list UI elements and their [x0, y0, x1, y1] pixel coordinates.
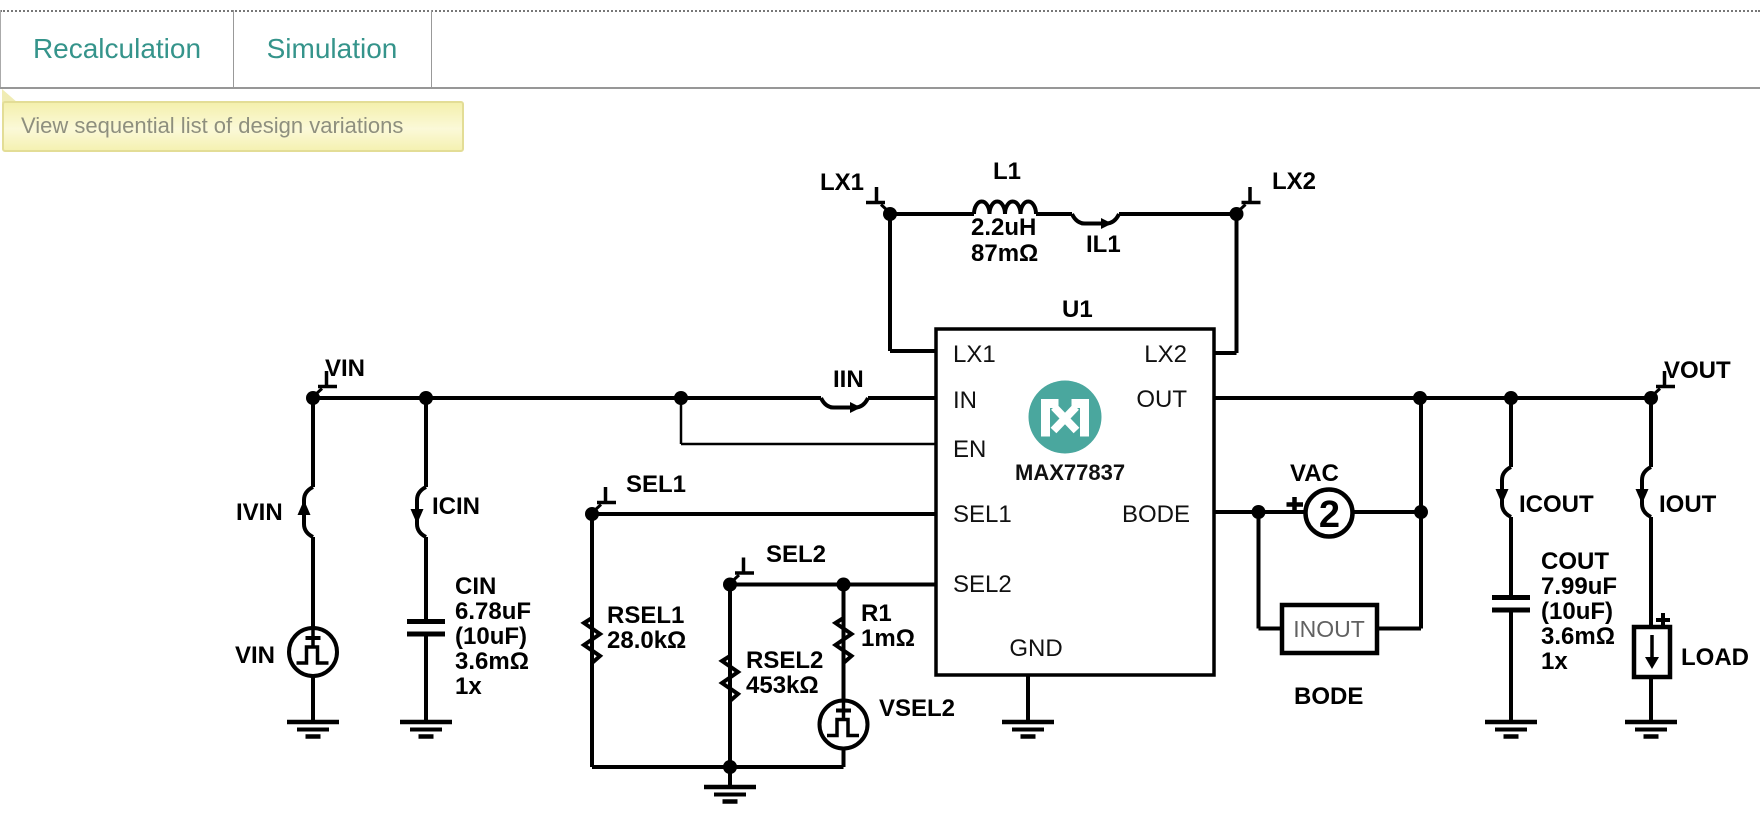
svg-text:CIN: CIN: [455, 573, 496, 600]
svg-text:BODE: BODE: [1122, 501, 1190, 528]
svg-text:VAC: VAC: [1290, 460, 1339, 487]
svg-text:2: 2: [1319, 494, 1340, 536]
svg-text:LOAD: LOAD: [1681, 644, 1749, 671]
svg-text:1x: 1x: [455, 673, 482, 700]
svg-text:453kΩ: 453kΩ: [746, 672, 819, 699]
svg-text:VIN: VIN: [235, 642, 275, 669]
svg-text:IN: IN: [953, 387, 977, 414]
svg-text:VIN: VIN: [325, 355, 365, 382]
svg-text:ICIN: ICIN: [432, 493, 480, 520]
svg-text:1x: 1x: [1541, 648, 1568, 675]
svg-text:MAX77837: MAX77837: [1015, 460, 1125, 485]
svg-text:ICOUT: ICOUT: [1519, 491, 1594, 518]
svg-text:IOUT: IOUT: [1659, 491, 1717, 518]
svg-text:RSEL1: RSEL1: [607, 602, 684, 629]
svg-text:(10uF): (10uF): [1541, 598, 1613, 625]
svg-text:3.6mΩ: 3.6mΩ: [1541, 623, 1615, 650]
svg-text:R1: R1: [861, 600, 892, 627]
svg-text:LX1: LX1: [820, 169, 864, 196]
svg-text:6.78uF: 6.78uF: [455, 598, 531, 625]
svg-text:(10uF): (10uF): [455, 623, 527, 650]
svg-text:OUT: OUT: [1136, 386, 1187, 413]
svg-text:SEL1: SEL1: [626, 471, 686, 498]
svg-text:IIN: IIN: [833, 366, 864, 393]
svg-text:7.99uF: 7.99uF: [1541, 573, 1617, 600]
svg-text:3.6mΩ: 3.6mΩ: [455, 648, 529, 675]
svg-text:GND: GND: [1009, 635, 1062, 662]
svg-text:IL1: IL1: [1086, 231, 1121, 258]
svg-text:2.2uH: 2.2uH: [971, 214, 1036, 241]
svg-text:U1: U1: [1062, 296, 1093, 323]
svg-text:LX2: LX2: [1272, 168, 1316, 195]
svg-text:SEL2: SEL2: [766, 541, 826, 568]
svg-text:87mΩ: 87mΩ: [971, 240, 1038, 267]
svg-text:IVIN: IVIN: [236, 499, 283, 526]
svg-text:SEL2: SEL2: [953, 571, 1012, 598]
svg-text:SEL1: SEL1: [953, 501, 1012, 528]
svg-text:INOUT: INOUT: [1293, 616, 1365, 642]
svg-text:EN: EN: [953, 436, 986, 463]
svg-text:RSEL2: RSEL2: [746, 647, 823, 674]
svg-text:L1: L1: [993, 158, 1021, 185]
svg-text:VOUT: VOUT: [1664, 357, 1731, 384]
svg-text:LX1: LX1: [953, 341, 996, 368]
svg-text:28.0kΩ: 28.0kΩ: [607, 627, 686, 654]
svg-text:VSEL2: VSEL2: [879, 695, 955, 722]
svg-text:COUT: COUT: [1541, 548, 1609, 575]
svg-text:1mΩ: 1mΩ: [861, 625, 915, 652]
svg-text:BODE: BODE: [1294, 683, 1363, 710]
svg-text:LX2: LX2: [1144, 341, 1187, 368]
